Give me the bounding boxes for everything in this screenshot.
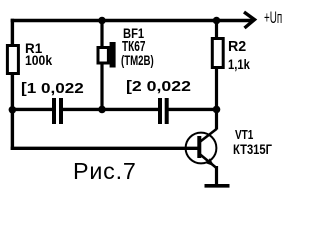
wire bottom rail to base (11, 147, 199, 150)
node junction top BF1 (98, 17, 106, 25)
wire BF1 branch vertical (100, 19, 103, 110)
label +Un (264, 10, 282, 27)
supply arrow +Un (244, 12, 255, 28)
label C2 value (126, 79, 191, 94)
label R1 (25, 41, 42, 55)
transistor VT1 (186, 129, 217, 168)
label BF1 type (TM2V) (121, 53, 154, 67)
capacitor C1 plates (54, 98, 61, 124)
resistor R1 (7, 46, 18, 74)
label R1 value 100k (25, 53, 52, 67)
capacitor C2 plates (160, 98, 167, 124)
label VT1 (235, 128, 253, 141)
node junction BF1 bottom (98, 106, 106, 114)
label C1 value (21, 81, 84, 96)
caption Ris.7 (73, 160, 137, 183)
label BF1 type TK67 (122, 39, 145, 54)
resistor R2 (212, 39, 223, 68)
label BF1 (123, 26, 144, 40)
node junction top R2 (213, 17, 221, 25)
sound capsule BF1 symbol (98, 42, 116, 68)
wire left rail (11, 19, 14, 150)
wire emitter to ground (215, 166, 218, 186)
node junction R2 bottom (213, 106, 221, 114)
ground (205, 184, 230, 188)
wire R2 branch / collector vertical (215, 19, 218, 130)
label R2 (228, 39, 246, 54)
wire mid horizontal C1-C2 node row (11, 108, 218, 111)
wire top rail +Un (11, 19, 252, 23)
label VT1 type KT315G (233, 142, 272, 156)
node junction left C1 (9, 106, 17, 114)
label R2 value 1,1k (228, 57, 250, 71)
